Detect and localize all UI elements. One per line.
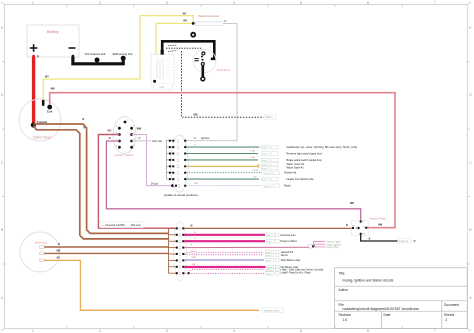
- wire: fuse2 F5 to horns (dashed magenta): [184, 253, 263, 256]
- ballast resistor R1: [196, 14, 224, 25]
- alternator terminal IND: [40, 259, 44, 262]
- fuse box 2 pins: [176, 227, 185, 274]
- relay pin W2: [360, 233, 362, 235]
- svg-text:Flasher #2: Flasher #2: [284, 171, 297, 175]
- connector: brake pedal switch: [262, 158, 279, 162]
- svg-text:WB: WB: [194, 113, 198, 116]
- wire N: starter contact to fuse bus 2 (brown outer): [33, 124, 168, 233]
- svg-text:1.0: 1.0: [343, 318, 348, 322]
- svg-text:Main Beam relay: Main Beam relay: [281, 258, 301, 262]
- svg-text:con 1: con 1: [266, 260, 272, 262]
- ground bolt bellhousing: [121, 56, 126, 61]
- ground strap battery - to chassis/bellhousing: [73, 52, 133, 64]
- svg-text:con 1: con 1: [266, 269, 272, 271]
- svg-text:Horns: Horns: [281, 253, 289, 257]
- connector: heater fan switch: [262, 177, 279, 181]
- svg-text:Sheets: Sheets: [444, 313, 455, 317]
- starter relay K1: [352, 216, 387, 235]
- wire F: fuse2 F2 to Kenlowe fan (bold magenta): [184, 234, 265, 236]
- ignition coil T1 (dashed box): [151, 55, 174, 90]
- svg-text:C2: C2: [363, 226, 365, 228]
- wire U/W: fuse2 F6 to main beam relay (blue): [184, 259, 264, 261]
- connector: lucas starter: [398, 239, 416, 244]
- fuse box 2 (always-live fuses F1-F8): [169, 222, 187, 281]
- connector: power to boot: [267, 240, 280, 244]
- svg-text:Brake pedal switch (pedal box): Brake pedal switch (pedal box): [287, 158, 323, 162]
- svg-text:4: 4: [233, 329, 235, 333]
- svg-text:2A typ: 2A typ: [151, 181, 159, 185]
- pin 7: [118, 140, 121, 143]
- title block: [335, 268, 468, 329]
- svg-text:Author: Author: [339, 288, 350, 292]
- svg-text:2: 2: [446, 318, 448, 322]
- svg-text:16A max: 16A max: [152, 139, 163, 143]
- connector: Tacho: [265, 115, 277, 119]
- relay pin C2: [365, 227, 367, 229]
- svg-text:Starter Motor: Starter Motor: [33, 136, 53, 140]
- svg-text:N: N: [83, 127, 85, 130]
- svg-text:7: 7: [434, 1, 436, 5]
- svg-text:Lnlab? Feed for H's, Flash: Lnlab? Feed for H's, Flash: [280, 270, 311, 274]
- connector: wiper dash: [262, 166, 279, 170]
- svg-text:N: N: [82, 118, 84, 121]
- svg-text:WY: WY: [183, 12, 187, 15]
- wire WR: ignition switch to fusebox2 feed (crimson): [98, 135, 176, 229]
- svg-text:2: 2: [99, 329, 101, 333]
- svg-text:Radio: Radio: [284, 184, 291, 188]
- svg-text:Reverse light switch (gear box: Reverse light switch (gear box): [287, 152, 323, 156]
- svg-text:Ignition: Ignition: [201, 136, 210, 140]
- wire: F5 to wiper motor (amber): [186, 164, 259, 167]
- svg-text:G: G: [194, 144, 196, 146]
- svg-text:con 1: con 1: [266, 273, 272, 275]
- pin 4: [130, 133, 133, 136]
- wire NW: starter solenoid coil to starter relay C2 (salmon red): [50, 93, 395, 228]
- svg-text:Wiper Dash #1: Wiper Dash #1: [287, 166, 305, 170]
- svg-text:2 Gb: 2 Gb: [250, 157, 256, 159]
- pin 1: [124, 121, 127, 124]
- svg-text:con 1: con 1: [267, 241, 273, 243]
- svg-text:W1: W1: [352, 225, 355, 227]
- pin 2: [130, 127, 133, 130]
- ruler ticks top: [67, 5, 402, 8]
- wire NB: alternator to fuse bus 2 (brown): [44, 252, 168, 254]
- connector: wiper motor: [262, 163, 279, 167]
- svg-text:3: 3: [166, 1, 168, 5]
- fuse F4 pins: [169, 159, 171, 161]
- ruler numbers bottom: [32, 329, 436, 333]
- fuse F6 pins: [169, 172, 171, 174]
- svg-text:5: 5: [300, 329, 302, 333]
- battery BT1: [27, 25, 79, 59]
- svg-text:Fusing, Ignition and Starter c: Fusing, Ignition and Starter circuits: [343, 279, 394, 283]
- starter motor M1: [19, 99, 61, 141]
- wire: F7 to heater fan switch (green): [186, 178, 259, 180]
- svg-text:C1: C1: [362, 221, 364, 223]
- svg-text:Tacho: Tacho: [266, 116, 273, 119]
- svg-text:1: 1: [32, 1, 34, 5]
- node: starter contact: [31, 122, 36, 127]
- battery negative post: [72, 55, 75, 60]
- bus 2 stubs: [169, 228, 176, 273]
- node: boot branch junction: [312, 245, 315, 248]
- svg-text:Kenlowe Fan: Kenlowe Fan: [280, 233, 296, 237]
- pin 9: [118, 146, 121, 149]
- svg-text:WY: WY: [183, 20, 187, 23]
- svg-text:← Fixed for 12v600: ← Fixed for 12v600: [102, 223, 125, 227]
- svg-text:1: 1: [32, 329, 34, 333]
- fuse F5 pins: [169, 165, 171, 167]
- wire G: F2 to dashboard (green): [186, 146, 259, 148]
- wire N: fuse2 F1 to starter relay contact (brown): [184, 227, 352, 229]
- wire W: ignition switch to starter relay winding (magenta): [106, 141, 360, 221]
- svg-text:Battery: Battery: [47, 30, 59, 34]
- fuse F3 pins: [169, 153, 171, 155]
- svg-text:5: 5: [300, 1, 302, 5]
- svg-text:NY: NY: [57, 257, 61, 260]
- svg-text:E: E: [469, 26, 471, 30]
- svg-text:Bellhousing bolt: Bellhousing bolt: [113, 52, 133, 56]
- svg-text:con 1: con 1: [262, 147, 268, 149]
- svg-text:con 1: con 1: [262, 168, 268, 170]
- svg-text:Coil: Coil: [160, 85, 165, 89]
- svg-text:N/S Chassis bolt: N/S Chassis bolt: [85, 52, 106, 56]
- svg-text:Dashboard: Ign. Lamp, Volt Reg: Dashboard: Ign. Lamp, Volt Reg, Brk warn…: [287, 145, 358, 149]
- battery positive post: [32, 55, 35, 60]
- pin 3: [118, 127, 121, 130]
- svg-text:Starter Relay: Starter Relay: [370, 216, 387, 220]
- wire: branch to interior lights: [313, 241, 325, 246]
- connector: horns: [266, 253, 280, 257]
- svg-text:con 1: con 1: [262, 160, 268, 162]
- svg-text:B: B: [1, 228, 3, 232]
- svg-text:Revision: Revision: [339, 313, 352, 317]
- starter solenoid output terminal: [42, 100, 45, 106]
- fuse bus 1: [165, 141, 167, 179]
- relay pin W1: [352, 227, 354, 229]
- connector: ignition lamp: [263, 308, 284, 313]
- bus stubs to fuse pins: [166, 141, 172, 179]
- wire: F6 to flasher (green dashed): [186, 172, 262, 174]
- relay pin C1: [360, 221, 362, 223]
- node: yellow junction: [192, 22, 195, 25]
- ground bolt N/S chassis: [95, 58, 100, 63]
- wire: battery + to starter contact (thick red R): [32, 57, 35, 125]
- svg-text:Title: Title: [339, 272, 345, 276]
- svg-text:Ignition Lamp: Ignition Lamp: [264, 309, 280, 313]
- svg-text:Document: Document: [444, 303, 459, 307]
- svg-text:B/G: B/G: [192, 252, 196, 254]
- wire W: ignition switch to fuse bus (grey, 16A max): [132, 140, 167, 142]
- ruler numbers top: [32, 1, 436, 5]
- svg-text:update to actual positions: update to actual positions: [164, 193, 199, 197]
- wire WB: coil CB to tachometer (dashed black): [182, 51, 264, 117]
- svg-text:B: B: [369, 238, 371, 241]
- svg-text:WR: WR: [350, 202, 354, 205]
- svg-text:con 1: con 1: [267, 235, 273, 237]
- svg-text:16A max: 16A max: [131, 223, 142, 227]
- wire B: starter relay W2 to lucas starter (black): [361, 235, 398, 241]
- fuse bus 2: [168, 228, 170, 273]
- wire WY: junction to coil + (yellow): [156, 23, 193, 54]
- connector: dashboard: [262, 145, 279, 149]
- condenser C1: [195, 59, 199, 61]
- svg-text:Ignition Switch: Ignition Switch: [114, 153, 134, 157]
- rotor and points chain: [202, 52, 205, 55]
- connector: reverse light switch: [262, 152, 279, 156]
- svg-text:R: R: [37, 55, 39, 59]
- fuse F8 pins: [175, 185, 177, 187]
- svg-text:Power to Boot: Power to Boot: [280, 239, 297, 243]
- fuse designators F1-F8: [177, 140, 181, 189]
- svg-text:2: 2: [99, 1, 101, 5]
- wire: branch to clock: [313, 246, 325, 248]
- node: F8 feed: [171, 184, 174, 187]
- alternator terminal B-: [40, 252, 44, 255]
- svg-text:4: 4: [233, 1, 235, 5]
- svg-text:6 P/S: 6 P/S: [253, 170, 259, 172]
- svg-text:E: E: [1, 26, 3, 30]
- svg-text:N: N: [191, 225, 193, 228]
- wire: fuse2 F4 to boot accessories branch (thin rose): [184, 246, 309, 248]
- connector: side lights: [266, 268, 280, 272]
- connector: dip beam relay: [268, 265, 280, 269]
- connector: flasher: [264, 171, 280, 175]
- connector: main beam relay: [266, 258, 280, 262]
- svg-text:con 1: con 1: [266, 255, 272, 257]
- wire: F8 to radio (violet dashed): [186, 185, 262, 187]
- svg-text:WR: WR: [107, 130, 111, 133]
- distributor cap centre terminal: [191, 33, 195, 37]
- svg-text:WY: WY: [45, 76, 49, 79]
- svg-text:Coil: Coil: [47, 110, 53, 114]
- wire N: starter contact to fuse bus 2 (brown inner): [33, 126, 168, 239]
- svg-text:6: 6: [367, 1, 369, 5]
- wire: fuse2 F7 to dip beam relay (bold magenta): [184, 266, 265, 268]
- alternator G1: [20, 232, 60, 272]
- pin 6: [130, 140, 133, 143]
- svg-text:Date: Date: [384, 313, 391, 317]
- wire WW: ignition switch to 2A fuse (lavender): [132, 135, 173, 186]
- ruler ticks sides: [2, 62, 470, 265]
- svg-text:UB: UB: [192, 264, 196, 266]
- svg-text:con 1: con 1: [262, 154, 268, 156]
- svg-text:W2: W2: [362, 233, 365, 235]
- connector: hazard: [266, 250, 280, 254]
- ignition switch S1: [113, 117, 136, 158]
- wire: fuse2 F8 to side lights (dashed): [184, 269, 264, 273]
- battery plus terminal: [30, 44, 38, 52]
- svg-text:Clock (PM): Clock (PM): [327, 246, 339, 249]
- connector: radio: [264, 184, 280, 188]
- svg-text:6: 6: [367, 329, 369, 333]
- ruler ticks bottom: [67, 326, 402, 329]
- svg-text:ncadwiring\circuit diagrams\OL: ncadwiring\circuit diagrams\OLB746T circ…: [343, 307, 420, 311]
- svg-text:con 1: con 1: [265, 186, 271, 188]
- svg-text:N: N: [58, 243, 60, 246]
- svg-text:B: B: [469, 228, 471, 232]
- node: starter solenoid coil: [47, 105, 52, 110]
- svg-text:NB: NB: [57, 250, 61, 253]
- wire: branch to cigar lighters: [313, 243, 325, 245]
- wire WY: solenoid terminal to ballast junction (yellow): [43, 16, 193, 100]
- fuse F2 pins: [169, 146, 171, 148]
- wire NY: alternator to ignition lamp (orange): [44, 260, 259, 310]
- svg-text:Heater Fan Switch pole: Heater Fan Switch pole: [287, 177, 315, 181]
- wire 2Gb: F4 to brake pedal switch (green): [186, 159, 258, 161]
- points wire (dashed) coil to points: [166, 47, 202, 49]
- svg-text:3: 3: [166, 329, 168, 333]
- svg-text:Distributor: Distributor: [217, 68, 231, 72]
- svg-text:Wiper motor #1: Wiper motor #1: [287, 162, 305, 166]
- wire: fuse2 F8 to H's flash feed (dashed): [189, 272, 264, 274]
- fuse F1 pins: [169, 140, 186, 187]
- note: fixed for 12v600: [100, 222, 144, 228]
- pin 8: [130, 146, 133, 149]
- wire W: ballast to fuse F1 (grey, via right riser): [185, 23, 237, 140]
- node: coil CB terminal: [153, 80, 156, 83]
- wire F: fuse2 F3 to power to boot (bold magenta): [184, 240, 265, 242]
- svg-text:WW: WW: [137, 128, 142, 131]
- svg-text:N: N: [346, 224, 348, 227]
- pin 5: [118, 133, 121, 136]
- svg-text:Alternator: Alternator: [34, 240, 47, 244]
- HT lead coil to distributor cap (thick black): [162, 41, 214, 59]
- distributor U1: [166, 45, 231, 81]
- wire N: alternator to fuse bus 2 (brown): [44, 246, 168, 248]
- svg-text:con 1: con 1: [262, 179, 268, 181]
- fuse F7 pins: [169, 178, 171, 180]
- connector: kenlowe fan: [267, 233, 280, 237]
- connector: boot branch: [309, 245, 313, 248]
- fuse box 1 (ignition-switched fuses F1-F8): [166, 135, 188, 192]
- svg-text:Lucas st: Lucas st: [399, 240, 409, 243]
- svg-text:2 Gb: 2 Gb: [250, 151, 256, 153]
- fuse box 2 designators: [179, 227, 183, 276]
- connector: H's flash: [266, 272, 280, 276]
- svg-text:con 1: con 1: [265, 173, 271, 175]
- svg-text:Ballast Resistor: Ballast Resistor: [199, 14, 220, 18]
- battery minus terminal: [69, 47, 76, 49]
- relay armature arrow: [356, 227, 360, 229]
- wire: fuse2 F5 to hazard (dashed magenta): [184, 252, 263, 253]
- coil HT tower: [161, 50, 164, 55]
- node: fuse2 F8 junction: [188, 272, 190, 274]
- svg-text:?: ?: [413, 239, 416, 244]
- svg-text:7: 7: [434, 329, 436, 333]
- wire 2Gb: F3 to reverse light switch (green): [186, 153, 258, 155]
- alternator terminal B+: [40, 246, 44, 249]
